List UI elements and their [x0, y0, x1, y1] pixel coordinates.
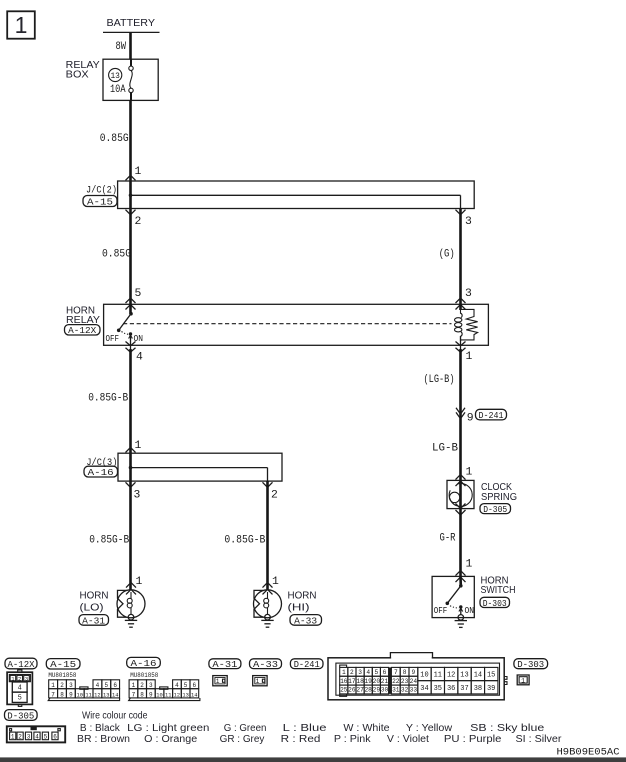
svg-text:0.85G: 0.85G [100, 133, 129, 145]
horn switch box D-303 [432, 576, 515, 618]
svg-text:16: 16 [340, 678, 348, 685]
svg-text:14: 14 [474, 672, 482, 680]
A-12X pill label [65, 325, 101, 337]
svg-text:A-16: A-16 [131, 659, 157, 669]
pin 1 of clock spring [456, 467, 473, 487]
connector D-303 pill [514, 659, 548, 670]
svg-text:34: 34 [420, 685, 428, 693]
A-31 pill label [79, 615, 109, 627]
svg-text:3: 3 [69, 682, 73, 689]
svg-text:BR : Brown: BR : Brown [77, 734, 130, 745]
svg-text:SB : Sky blue: SB : Sky blue [470, 723, 545, 734]
svg-text:BOX: BOX [66, 70, 89, 81]
svg-text:1: 1 [15, 12, 28, 38]
svg-text:GR : Grey: GR : Grey [220, 734, 265, 745]
connector D-241 pin grid [340, 665, 498, 696]
connector A-33 pill [250, 659, 282, 670]
svg-text:B : Black: B : Black [80, 723, 121, 734]
svg-text:D-303: D-303 [517, 660, 544, 670]
svg-text:A-31: A-31 [212, 660, 237, 670]
svg-text:7: 7 [132, 691, 136, 698]
wire relay pin4 to J/C(3) [129, 349, 132, 453]
connector D-305 pinout [7, 726, 65, 742]
svg-text:5: 5 [375, 669, 379, 676]
svg-text:38: 38 [474, 685, 482, 693]
horn LO A-31 [80, 590, 146, 618]
svg-text:6: 6 [383, 669, 387, 676]
relay internal dashed link [123, 323, 452, 325]
pin 2 of J/C(2) [126, 210, 142, 228]
svg-text:13: 13 [110, 71, 120, 81]
svg-text:3: 3 [465, 288, 472, 300]
svg-text:7: 7 [394, 669, 398, 676]
pin 1 of J/C(2) [126, 166, 142, 180]
A-15 pill label [83, 196, 117, 208]
svg-text:A-33: A-33 [253, 660, 278, 670]
svg-text:PU : Purple: PU : Purple [444, 734, 502, 745]
svg-text:11: 11 [85, 692, 91, 698]
connector A-12X pinout [7, 670, 32, 706]
svg-text:29: 29 [373, 687, 381, 694]
wire relay pin1 to D-241 [459, 349, 462, 480]
svg-text:13: 13 [103, 692, 109, 698]
connector D-241 pinout shell [328, 652, 507, 700]
svg-text:36: 36 [447, 685, 455, 693]
pin 4 of horn relay [126, 342, 144, 364]
connector A-31 pinout [213, 676, 227, 686]
svg-text:5: 5 [184, 682, 188, 689]
svg-text:22: 22 [392, 678, 400, 685]
wire J/C(2) to horn relay pin 5 [129, 209, 132, 305]
fuse 13 10A [109, 59, 134, 100]
wire clock spring to horn switch [459, 509, 462, 577]
battery B+ terminal [103, 18, 160, 33]
svg-text:LG-B: LG-B [432, 443, 458, 455]
relay switch contact [106, 304, 144, 349]
svg-text:3: 3 [149, 682, 153, 689]
svg-text:MU801858: MU801858 [130, 672, 158, 679]
pin 3 of J/C(2) [456, 210, 473, 228]
svg-text:1: 1 [135, 166, 142, 178]
svg-text:9: 9 [412, 669, 416, 676]
svg-text:1: 1 [272, 576, 279, 588]
svg-text:10: 10 [77, 692, 83, 698]
svg-text:9: 9 [467, 413, 474, 425]
svg-text:4: 4 [366, 669, 370, 676]
svg-text:10: 10 [156, 692, 162, 698]
page number box 1 [7, 11, 35, 38]
svg-text:4: 4 [35, 733, 39, 740]
pin 1 of J/C(3) [126, 440, 142, 452]
connector D-305 pill [5, 710, 38, 722]
svg-text:HORN: HORN [288, 591, 317, 602]
svg-text:37: 37 [460, 685, 468, 693]
svg-text:1: 1 [466, 467, 473, 479]
svg-text:19: 19 [364, 678, 372, 685]
svg-text:31: 31 [392, 687, 400, 694]
svg-text:HORN: HORN [80, 591, 109, 602]
svg-text:12: 12 [94, 692, 100, 698]
inline connector D-241 pin 9 [456, 408, 507, 425]
svg-text:1: 1 [466, 351, 473, 363]
svg-text:4: 4 [96, 682, 100, 689]
svg-text:(HI): (HI) [288, 603, 310, 614]
svg-text:11: 11 [434, 672, 442, 680]
svg-text:SWITCH: SWITCH [481, 585, 516, 596]
svg-text:1: 1 [135, 440, 142, 452]
pin 3 of horn relay [456, 288, 473, 310]
svg-text:1: 1 [342, 669, 346, 676]
svg-text:1: 1 [466, 559, 473, 571]
svg-text:0.85G: 0.85G [102, 249, 131, 261]
svg-text:39: 39 [487, 685, 495, 693]
horn relay box A-12X [66, 304, 488, 345]
svg-text:2: 2 [271, 490, 278, 502]
svg-text:12: 12 [447, 672, 455, 680]
svg-text:G : Green: G : Green [224, 723, 267, 734]
svg-text:D-305: D-305 [483, 505, 507, 515]
connector A-33 pinout [253, 676, 267, 686]
pin 1 of horn HI [263, 576, 280, 594]
svg-text:14: 14 [112, 692, 118, 698]
pin 5 of horn relay [126, 288, 142, 310]
svg-text:18: 18 [356, 678, 364, 685]
J/C(2) internal bus [129, 181, 461, 209]
clock spring D-305 [447, 480, 517, 515]
svg-text:(LO): (LO) [80, 603, 104, 614]
wire battery to relay box [129, 32, 132, 59]
svg-text:8: 8 [60, 691, 64, 698]
horn HI A-33 [254, 590, 317, 618]
connector A-15 pinout [48, 680, 119, 701]
A-16 pill label [84, 466, 118, 478]
svg-text:3: 3 [27, 733, 31, 740]
wire J/C(3) to horn LO [129, 481, 132, 590]
wire relay box to J/C(2) pin 1 [129, 100, 132, 181]
svg-text:LG : Light green: LG : Light green [127, 723, 209, 734]
wire colour code line 1 [80, 723, 545, 734]
svg-text:A-16: A-16 [88, 468, 114, 478]
svg-text:4: 4 [175, 682, 179, 689]
pin 1 of horn LO [126, 576, 143, 594]
J/C(3) junction connector box [86, 453, 282, 481]
svg-text:20: 20 [373, 678, 381, 685]
A-33 pill label [290, 615, 322, 627]
svg-text:2: 2 [350, 669, 354, 676]
svg-text:2: 2 [18, 733, 22, 740]
svg-text:35: 35 [434, 685, 442, 693]
svg-text:R : Red: R : Red [281, 734, 321, 745]
svg-text:6: 6 [113, 682, 117, 689]
svg-text:3: 3 [134, 490, 141, 502]
svg-text:L : Blue: L : Blue [283, 723, 327, 734]
pin 2 of J/C(3) [263, 482, 279, 501]
svg-text:2: 2 [140, 682, 144, 689]
svg-text:V : Violet: V : Violet [387, 734, 429, 745]
connector A-16 pinout [129, 680, 200, 701]
J/C(2) junction connector box [86, 181, 474, 209]
svg-text:1: 1 [51, 682, 55, 689]
bottom bar [0, 757, 626, 762]
svg-text:MU801858: MU801858 [48, 672, 76, 679]
svg-text:2: 2 [60, 682, 64, 689]
svg-text:W : White: W : White [343, 723, 390, 734]
svg-text:28: 28 [364, 687, 372, 694]
svg-text:A-15: A-15 [50, 660, 76, 670]
svg-text:8: 8 [403, 669, 407, 676]
svg-text:SPRING: SPRING [481, 492, 517, 503]
clock spring bottom pins [456, 504, 466, 516]
svg-text:26: 26 [348, 687, 356, 694]
svg-text:J/C(3): J/C(3) [86, 457, 117, 469]
J/C(3) internal bus [129, 453, 268, 481]
svg-text:15: 15 [487, 672, 495, 680]
svg-text:5: 5 [18, 695, 22, 703]
svg-text:O : Orange: O : Orange [144, 734, 197, 745]
svg-text:G-R: G-R [440, 533, 456, 545]
svg-text:BATTERY: BATTERY [107, 18, 156, 29]
svg-text:P : Pink: P : Pink [334, 734, 372, 745]
svg-text:A-15: A-15 [87, 198, 113, 208]
svg-text:D-241: D-241 [294, 660, 320, 670]
horn LO ground [125, 614, 137, 627]
svg-text:1: 1 [132, 682, 136, 689]
svg-text:8W: 8W [116, 41, 127, 53]
svg-text:33: 33 [410, 687, 418, 694]
svg-text:5: 5 [104, 682, 108, 689]
pin 3 of J/C(3) [126, 482, 141, 501]
svg-text:17: 17 [348, 678, 356, 685]
connector D-303 pinout [517, 675, 529, 685]
connector A-31 pill [209, 659, 241, 670]
connector D-241 pin numbers [340, 669, 495, 694]
svg-text:D-303: D-303 [483, 599, 507, 609]
svg-text:7: 7 [51, 691, 55, 698]
connector D-241 pill [290, 659, 323, 670]
wire J/C(3) to horn HI [266, 481, 269, 590]
svg-text:5: 5 [44, 733, 48, 740]
svg-text:21: 21 [381, 678, 389, 685]
connector A-16 pill [127, 657, 161, 669]
svg-text:32: 32 [401, 687, 409, 694]
svg-text:A-12X: A-12X [68, 326, 97, 336]
svg-text:11: 11 [165, 692, 171, 698]
svg-text:D-241: D-241 [479, 411, 504, 421]
svg-text:4: 4 [18, 684, 22, 692]
svg-text:A-31: A-31 [82, 616, 105, 626]
svg-text:6: 6 [53, 733, 57, 740]
svg-text:5: 5 [135, 288, 142, 300]
svg-text:6: 6 [192, 682, 196, 689]
wire colour code line 2 [77, 734, 562, 745]
svg-text:1: 1 [521, 677, 525, 684]
pin 1 of horn relay [456, 342, 473, 364]
svg-text:23: 23 [401, 678, 409, 685]
svg-text:25: 25 [340, 687, 348, 694]
svg-text:10A: 10A [110, 84, 126, 96]
svg-text:9: 9 [69, 691, 73, 698]
svg-text:A-12X: A-12X [8, 660, 36, 670]
connector A-12X pill [5, 658, 37, 670]
svg-text:3: 3 [465, 216, 472, 228]
wire J/C(2) to horn relay pin 3 [459, 209, 462, 305]
svg-text:3: 3 [358, 669, 362, 676]
svg-text:SI : Silver: SI : Silver [516, 734, 563, 745]
svg-text:1: 1 [11, 733, 15, 740]
svg-text:0.85G-B: 0.85G-B [88, 393, 128, 405]
horn switch contact [434, 576, 474, 616]
svg-text:14: 14 [191, 692, 197, 698]
svg-text:24: 24 [410, 678, 418, 685]
svg-text:OFF: OFF [106, 333, 120, 344]
svg-text:Wire colour code: Wire colour code [82, 711, 148, 722]
svg-text:H9B09E05AC: H9B09E05AC [557, 748, 620, 759]
svg-text:9: 9 [149, 691, 153, 698]
svg-text:J/C(2): J/C(2) [86, 185, 117, 197]
horn switch ground [455, 615, 467, 628]
svg-text:1: 1 [136, 576, 143, 588]
svg-text:A-33: A-33 [294, 616, 317, 626]
svg-text:1: 1 [256, 678, 260, 685]
svg-text:10: 10 [420, 672, 428, 680]
relay box (fuse holder) [66, 59, 159, 100]
svg-text:8: 8 [140, 691, 144, 698]
svg-text:1: 1 [216, 678, 220, 685]
svg-text:13: 13 [460, 672, 468, 680]
svg-text:12: 12 [174, 692, 180, 698]
relay coil and resistor [455, 304, 478, 349]
svg-text:13: 13 [182, 692, 188, 698]
svg-text:27: 27 [356, 687, 364, 694]
svg-text:2: 2 [135, 216, 142, 228]
svg-text:Y : Yellow: Y : Yellow [406, 723, 453, 734]
connector A-15 pill [46, 659, 80, 671]
horn HI ground [261, 614, 273, 627]
svg-text:OFF: OFF [434, 605, 448, 616]
svg-text:(LG-B): (LG-B) [424, 374, 455, 386]
svg-text:0.85G-B: 0.85G-B [224, 535, 265, 547]
svg-text:(G): (G) [439, 249, 455, 261]
svg-text:D-305: D-305 [7, 712, 34, 722]
svg-text:0.85G-B: 0.85G-B [89, 535, 129, 547]
svg-text:ON: ON [465, 605, 475, 616]
svg-text:30: 30 [381, 687, 389, 694]
svg-text:4: 4 [136, 352, 143, 364]
pin 1 of horn switch [456, 559, 473, 583]
